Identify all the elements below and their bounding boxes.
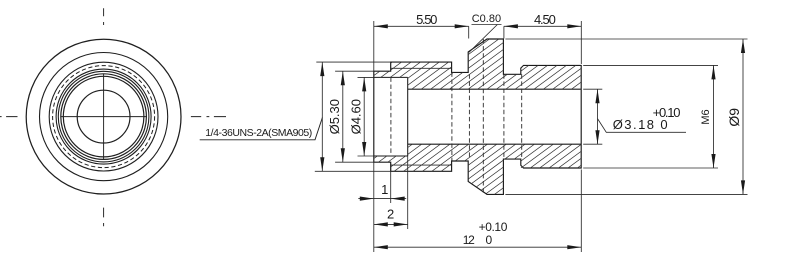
bore 4.60 bottom wall (374, 155, 408, 157)
svg-text:Ø4.60: Ø4.60 (349, 99, 364, 134)
extension line thread OD bottom (315, 170, 391, 172)
extension line M6 top (583, 64, 718, 66)
dimension line tip OD 5.30 (342, 71, 344, 162)
extension line bore step (dim 2) (407, 156, 409, 229)
dimension line M6 thread (713, 65, 715, 168)
front view groove circle (63, 76, 144, 157)
extension line flange left face top (468, 26, 470, 38)
front view horizontal crosshair (61, 116, 147, 118)
svg-text:C0.80: C0.80 (472, 13, 501, 25)
extension line flange OD top (505, 38, 747, 40)
svg-text:Ø3.18: Ø3.18 (613, 117, 654, 132)
svg-text:1/4-36UNS-2A(SMA905): 1/4-36UNS-2A(SMA905) (205, 127, 312, 139)
dimension line 12 (374, 246, 582, 248)
svg-text:12: 12 (463, 233, 475, 247)
svg-text:0: 0 (486, 233, 493, 247)
svg-text:M6: M6 (700, 109, 712, 124)
extension line flange OD bottom (505, 193, 747, 195)
thread root line top (391, 67, 452, 69)
front view thread crest circle (49, 62, 158, 171)
bore 3.18 top wall (408, 88, 582, 90)
front view neck circle (61, 74, 147, 160)
extension line tip end (dim 1) (390, 164, 392, 204)
hidden line at thread start (390, 77, 392, 156)
extension line bore 4.60 bottom (358, 155, 374, 157)
hidden line at flange left face (468, 74, 470, 159)
section hatching bottom band (370, 0, 584, 272)
bore step face (407, 77, 409, 156)
extension line M6 bottom (583, 167, 718, 169)
extension line bore 3.18 bottom (583, 143, 602, 145)
svg-text:4.50: 4.50 (534, 12, 556, 27)
dimension line 1 (358, 198, 406, 200)
dimension line bore 4.60 (363, 77, 365, 156)
extension line flange right face top (503, 26, 505, 38)
front view circle r45 (58, 71, 149, 162)
section hatching top band (370, 0, 584, 272)
extension line bore 4.60 top (358, 76, 374, 78)
bore 4.60 top wall (374, 76, 408, 78)
svg-text:+0.10: +0.10 (479, 220, 508, 234)
svg-text:1: 1 (381, 182, 388, 197)
hidden line at flange right face (503, 74, 505, 159)
extension line tip OD bottom (335, 161, 374, 163)
front view tip OD circle (56, 69, 151, 164)
extension line bore 3.18 top (583, 88, 602, 90)
vertical centerline dashes (103, 8, 105, 226)
hidden line at M6 thread start (521, 74, 523, 159)
dimension line 2 (374, 223, 408, 225)
front view thread root circle (dashed) (53, 66, 155, 168)
svg-text:+0.10: +0.10 (653, 105, 681, 120)
dimension line thread OD (321, 62, 323, 171)
extension line tip OD top (335, 70, 374, 72)
dimension line 4.50 (504, 25, 581, 27)
bore leader line (598, 119, 687, 133)
horizontal centerline dashes (0, 116, 226, 118)
svg-text:Ø9: Ø9 (726, 108, 742, 127)
front view vertical crosshair (103, 74, 105, 160)
svg-text:2: 2 (387, 207, 394, 222)
part outline (sectioned body) (374, 39, 581, 194)
extension line thread OD top (316, 61, 390, 63)
bore 3.18 bottom wall (408, 143, 582, 145)
thread root line bottom (391, 164, 452, 166)
chamfer leader line C0.80 (469, 25, 502, 53)
hidden line of flange chamfer (482, 39, 484, 194)
hidden line at thread end (451, 72, 453, 161)
thread note leader line (200, 118, 323, 140)
dimension line flange OD 9 (742, 39, 744, 194)
front view outer circle (flange OD 9mm) (26, 39, 181, 194)
svg-text:Ø5.30: Ø5.30 (327, 99, 342, 134)
svg-text:5.50: 5.50 (416, 12, 437, 27)
dimension line bore 3.18 (597, 89, 599, 144)
extension line left face vertical (373, 21, 375, 71)
extension line part right face (580, 21, 582, 64)
front view chamfer circle (40, 53, 168, 181)
front view bore circle (3.18mm) (77, 90, 130, 143)
dimension line 5.50 (374, 25, 469, 27)
